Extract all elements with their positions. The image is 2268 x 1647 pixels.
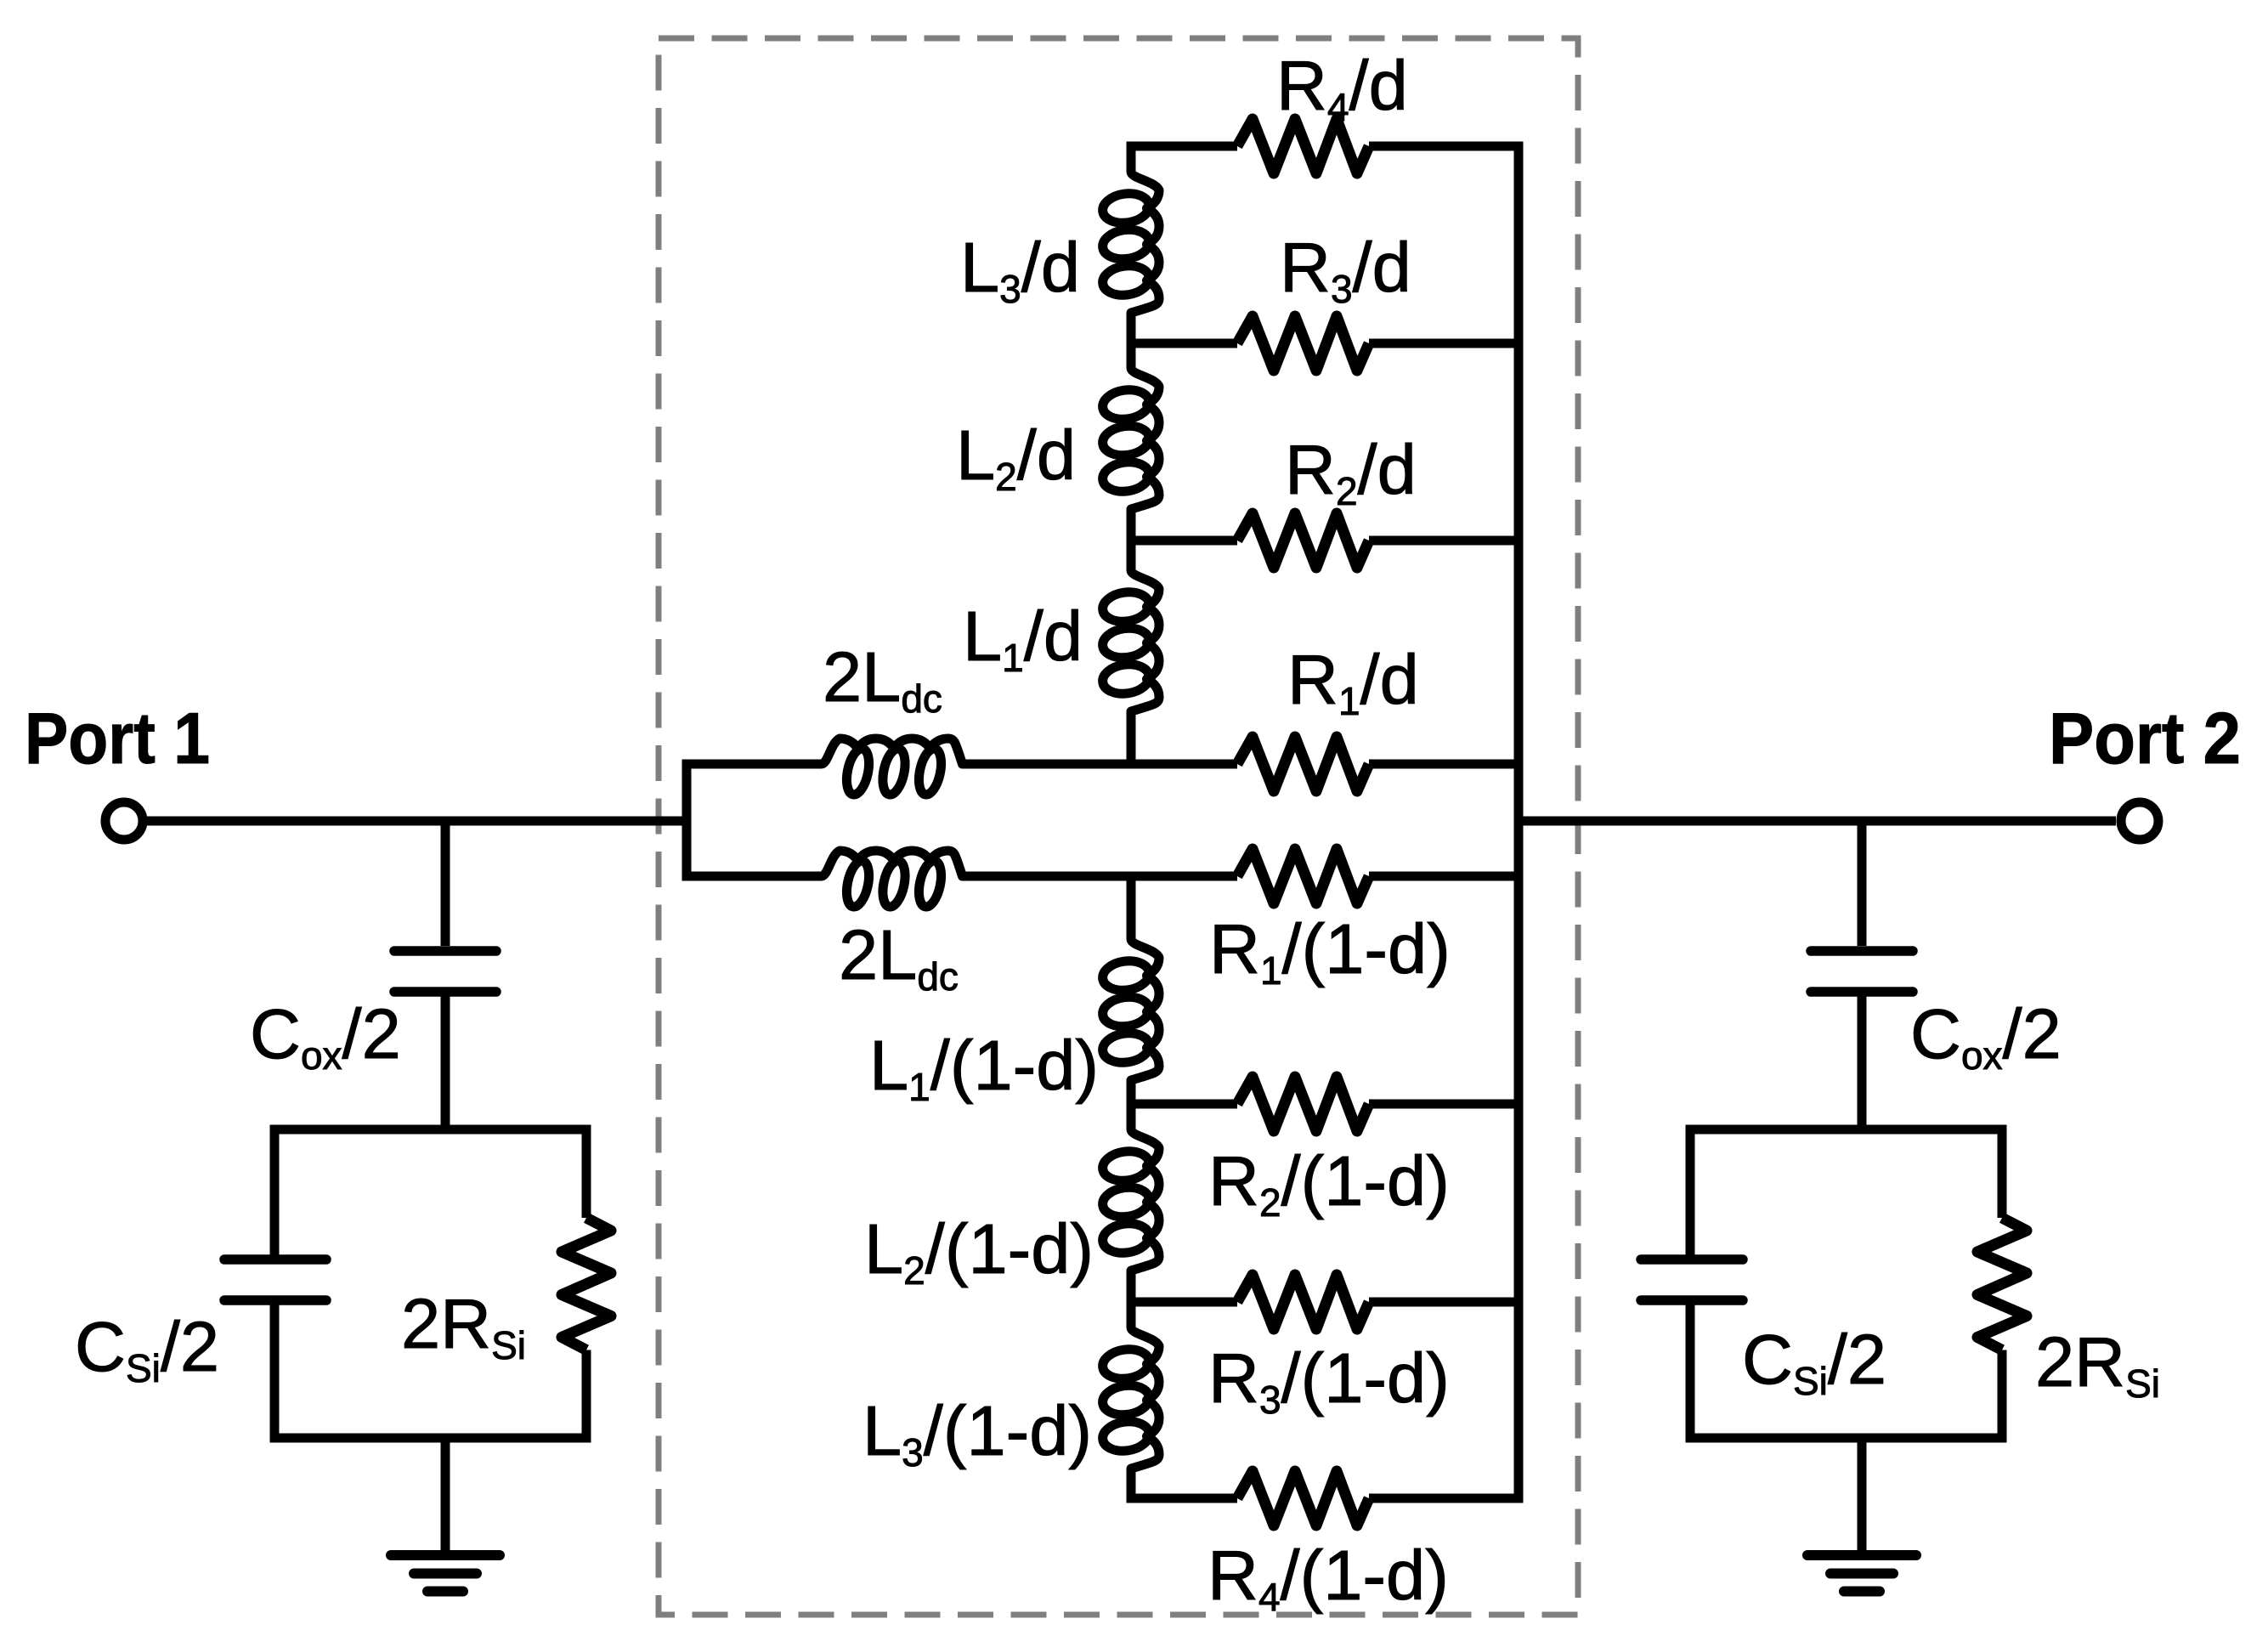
svg-text:L1​/d: L1​/d bbox=[963, 597, 1083, 680]
svg-text:R3​/d: R3​/d bbox=[1280, 228, 1411, 311]
svg-text:R4​/d: R4​/d bbox=[1276, 46, 1408, 129]
svg-text:CSi​/2: CSi​/2 bbox=[75, 1307, 219, 1390]
svg-text:R1​/d: R1​/d bbox=[1287, 640, 1419, 723]
svg-text:L3​/(1-d): L3​/(1-d) bbox=[863, 1391, 1092, 1474]
svg-text:R2​/d: R2​/d bbox=[1285, 430, 1417, 513]
svg-text:2RSi​: 2RSi​ bbox=[401, 1284, 526, 1367]
svg-text:R1​/(1-d): R1​/(1-d) bbox=[1209, 909, 1451, 993]
svg-text:Cox​/2: Cox​/2 bbox=[1910, 994, 2062, 1078]
svg-text:2Ldc​: 2Ldc​ bbox=[823, 637, 942, 721]
svg-text:R4​/(1-d): R4​/(1-d) bbox=[1208, 1536, 1449, 1619]
svg-text:L2​/d: L2​/d bbox=[956, 416, 1076, 499]
svg-text:2RSi​: 2RSi​ bbox=[2035, 1322, 2160, 1406]
svg-text:Cox​/2: Cox​/2 bbox=[250, 994, 401, 1078]
svg-text:CSi​/2: CSi​/2 bbox=[1742, 1320, 1886, 1403]
svg-text:Port 1: Port 1 bbox=[25, 699, 210, 779]
svg-text:L2​/(1-d): L2​/(1-d) bbox=[864, 1209, 1094, 1293]
svg-text:R3​/(1-d): R3​/(1-d) bbox=[1208, 1339, 1450, 1422]
svg-text:R2​/(1-d): R2​/(1-d) bbox=[1208, 1141, 1450, 1225]
svg-text:L1​/(1-d): L1​/(1-d) bbox=[869, 1026, 1099, 1109]
svg-text:L3​/d: L3​/d bbox=[960, 228, 1080, 311]
svg-text:2Ldc​: 2Ldc​ bbox=[839, 915, 959, 999]
svg-text:Port 2: Port 2 bbox=[2049, 699, 2241, 779]
